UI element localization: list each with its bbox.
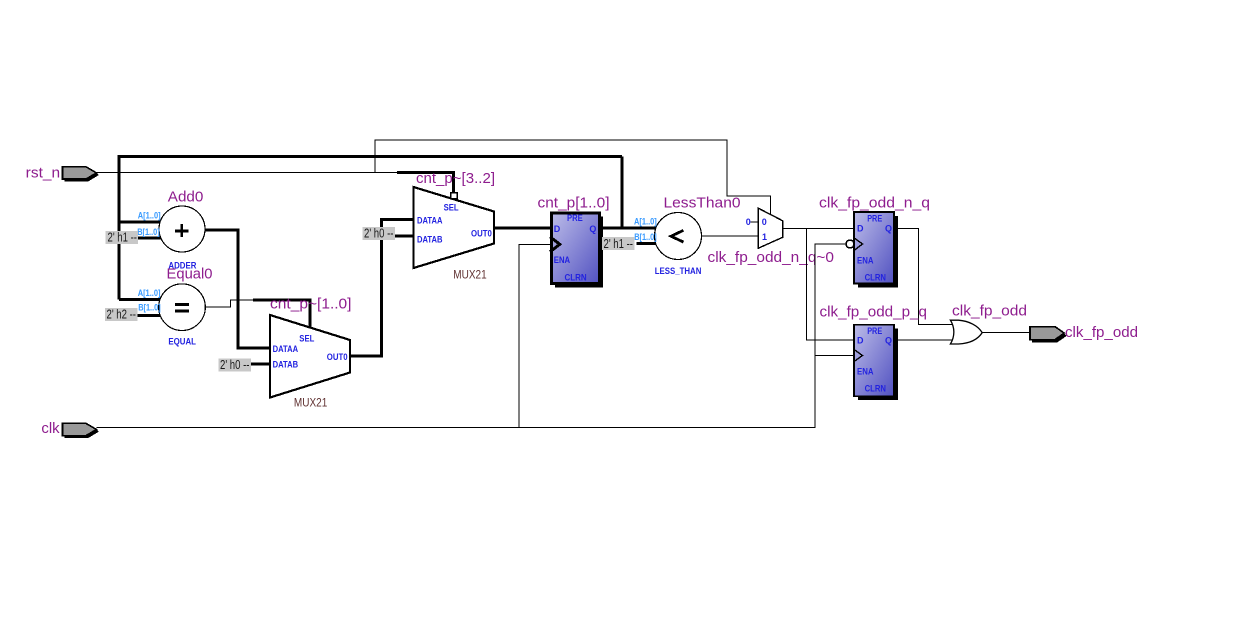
svg-text:EQUAL: EQUAL [168, 337, 196, 347]
wire Q of clk_fp_odd_n_q to OR gate [894, 228, 955, 324]
mux cnt_p~[1..0] [270, 295, 352, 409]
svg-text:OUT0: OUT0 [471, 229, 492, 239]
svg-text:2' h1 --: 2' h1 -- [604, 236, 634, 251]
comparator LessThan0 [634, 195, 741, 276]
wire Equal0 A input [119, 298, 161, 301]
wire Equal0 out thin jog [206, 300, 254, 307]
svg-text:D: D [554, 224, 561, 234]
svg-text:Q: Q [589, 224, 596, 234]
adder Add0 [137, 189, 205, 271]
svg-text:2' h0 --: 2' h0 -- [364, 226, 394, 241]
svg-text:D: D [857, 224, 864, 234]
svg-text:SEL: SEL [299, 334, 314, 344]
input pin clk [41, 420, 99, 438]
svg-text:MUX21: MUX21 [453, 269, 486, 281]
constant 2'h0 for cnt_p~[1..0] DATAB [219, 357, 252, 372]
svg-text:CLRN: CLRN [865, 272, 886, 282]
wire OR out to output pin [982, 332, 1030, 334]
svg-text:SEL: SEL [444, 203, 459, 213]
svg-text:A[1..0]: A[1..0] [634, 217, 657, 227]
svg-text:DATAA: DATAA [417, 216, 443, 226]
svg-text:clk_fp_odd: clk_fp_odd [952, 303, 1027, 320]
svg-text:A[1..0]: A[1..0] [138, 211, 161, 221]
wire rst_n pin to SEL (thin part) [97, 171, 398, 173]
wire OUT0 of cnt_p~[3..2] to D of cnt_p[1..0] [494, 227, 550, 230]
wire const to DATAB of cnt_p~[3..2] [394, 235, 414, 238]
constant 2'h2 for Equal0 B [105, 307, 138, 322]
svg-text:OUT0: OUT0 [327, 352, 348, 362]
svg-text:A[1..0]: A[1..0] [138, 288, 161, 298]
svg-text:Equal0: Equal0 [167, 266, 213, 283]
svg-text:rst_n: rst_n [26, 165, 61, 182]
mux cnt_p~[3..2] [414, 170, 496, 281]
wire const 0 stub to mux input 0 [751, 221, 759, 223]
svg-text:0: 0 [762, 217, 767, 227]
svg-text:B[1..0]: B[1..0] [137, 227, 160, 237]
register clk_fp_odd_n_q [819, 194, 930, 287]
svg-text:PRE: PRE [567, 213, 583, 223]
wire const to B of LessThan0 [637, 242, 657, 245]
svg-text:CLRN: CLRN [565, 273, 587, 283]
svg-text:2' h1 --: 2' h1 -- [108, 230, 138, 245]
svg-text:PRE: PRE [867, 326, 882, 336]
svg-text:DATAA: DATAA [273, 344, 299, 354]
constant 2'h1 for Add0 B [106, 230, 139, 245]
constant 2'h1 for LessThan0 B [602, 236, 635, 251]
wire Add0 A input [119, 220, 161, 223]
constant 2'h0 for cnt_p~[3..2] DATAB [363, 226, 396, 241]
svg-text:0: 0 [746, 217, 751, 227]
wire clk branch to clk_fp_odd_p_q clock [815, 355, 854, 357]
wire rst_n branch up at x=374 [375, 140, 770, 215]
wire mux out to D of clk_fp_odd_n_q [783, 227, 854, 229]
svg-text:ENA: ENA [857, 367, 874, 377]
register cnt_p[1..0] [538, 195, 610, 288]
wire rst_n thick part into SEL bubble of cnt_p~[3..2] [397, 172, 454, 192]
wire Q of clk_fp_odd_p_q to OR gate [894, 339, 955, 341]
svg-text:cnt_p~[1..0]: cnt_p~[1..0] [270, 295, 352, 312]
svg-text:DATAB: DATAB [417, 234, 443, 244]
svg-text:Add0: Add0 [168, 189, 204, 206]
svg-text:ENA: ENA [857, 255, 874, 265]
svg-text:ENA: ENA [554, 255, 571, 265]
wire Equal0 B input const [138, 314, 161, 317]
svg-text:B[1..0]: B[1..0] [634, 232, 657, 242]
input pin rst_n [26, 165, 99, 182]
svg-text:B[1..0]: B[1..0] [138, 303, 161, 313]
svg-text:CLRN: CLRN [865, 384, 886, 394]
svg-text:clk_fp_odd_n_q: clk_fp_odd_n_q [819, 194, 930, 211]
svg-text:PRE: PRE [867, 213, 882, 223]
wire Add0 out to DATAA of cnt_p~[1..0] [205, 230, 270, 348]
svg-text:clk: clk [41, 420, 60, 437]
svg-text:LessThan0: LessThan0 [664, 195, 741, 212]
wire cnt_p feedback bus y=155 [119, 156, 622, 299]
register clk_fp_odd_p_q [820, 304, 928, 401]
wire clk net [97, 244, 846, 428]
svg-text:LESS_THAN: LESS_THAN [655, 266, 702, 276]
svg-text:DATAB: DATAB [273, 359, 299, 369]
wire Q feedback up at x=622 [620, 156, 623, 228]
svg-text:2' h2 --: 2' h2 -- [107, 307, 137, 322]
mux clk_fp_odd_n_q~0 [708, 208, 835, 266]
svg-text:clk_fp_odd: clk_fp_odd [1065, 324, 1138, 341]
svg-text:D: D [857, 336, 864, 346]
svg-text:cnt_p[1..0]: cnt_p[1..0] [538, 195, 610, 212]
svg-text:cnt_p~[3..2]: cnt_p~[3..2] [416, 170, 495, 187]
or gate [950, 303, 1027, 344]
svg-text:2' h0 --: 2' h0 -- [220, 357, 250, 372]
svg-text:Q: Q [885, 224, 892, 234]
svg-text:1: 1 [762, 232, 767, 242]
comparator Equal0 [138, 266, 213, 347]
wire Add0 B input const [138, 237, 162, 240]
svg-text:MUX21: MUX21 [294, 398, 327, 410]
wire clk branch to cnt_p clock [519, 244, 550, 427]
wire LessThan0 out to mux input 1 [702, 235, 759, 237]
svg-text:Q: Q [885, 336, 892, 346]
svg-text:clk_fp_odd_p_q: clk_fp_odd_p_q [820, 304, 928, 321]
wire mux out branch down to D of clk_fp_odd_p_q [807, 228, 855, 339]
output pin clk_fp_odd [1030, 324, 1138, 343]
wire const to DATAB of cnt_p~[1..0] [249, 363, 270, 366]
wire OUT0 of cnt_p~[1..0] to DATAA of cnt_p~[3..2] [350, 220, 414, 357]
wire Q of cnt_p[1..0] to A of LessThan0 [600, 227, 657, 230]
wire Equal0 out thick to SEL of cnt_p~[1..0] [253, 300, 310, 328]
